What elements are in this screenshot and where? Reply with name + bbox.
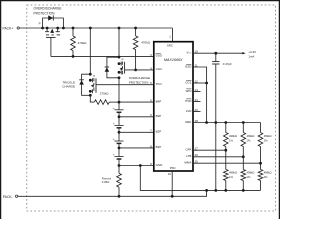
resistor pair column 1 499k/499k [225, 123, 227, 133]
svg-text:TKO: TKO [156, 82, 163, 86]
junction dots on PACK+ rail at Q1 [41, 27, 44, 30]
svg-text:10: 10 [168, 172, 172, 176]
wire tap2 to pin 8 [119, 131, 154, 133]
svg-text:OVERCHARGE: OVERCHARGE [129, 76, 150, 80]
junction dot trickle drop [89, 27, 92, 30]
svg-text:PACK-: PACK- [3, 195, 13, 199]
wire Q1 gate lead [50, 37, 52, 56]
junction dot pin 12 join [205, 82, 208, 85]
svg-text:0.47μF: 0.47μF [223, 62, 232, 66]
svg-text:OVERDISCHARGE: OVERDISCHARGE [34, 7, 62, 11]
svg-text:CG2: CG2 [156, 67, 163, 71]
wire DSG gate rail to pin 3 [51, 55, 154, 57]
svg-text:MMA: MMA [184, 161, 191, 165]
svg-text:LVD: LVD [186, 109, 192, 113]
arrowhead +3.3V output [242, 52, 245, 54]
resistor R1 470k ohm gate pullup [72, 28, 74, 36]
svg-text:499kΩ: 499kΩ [264, 171, 272, 175]
junction dot VCC cap node [214, 52, 217, 55]
svg-text:+: + [113, 137, 115, 141]
svg-text:MAX1666X: MAX1666X [164, 58, 183, 62]
svg-text:PKN: PKN [170, 166, 176, 170]
wire tap1 to pin 7 [119, 116, 154, 118]
junction dot R2 bottom at CG2 wire [134, 69, 137, 72]
svg-text:1%: 1% [247, 175, 251, 179]
junction dot overcharge drop [118, 27, 121, 30]
svg-text:1%: 1% [229, 138, 233, 142]
wire PKN pin 10 to PACK- rail [171, 171, 173, 196]
op-amp U1 MAX1666X package outline [154, 42, 193, 171]
wire rail to overcharge FET [118, 28, 120, 59]
svg-text:+3.3V: +3.3V [248, 50, 256, 54]
wire rail to trickle charge FET [89, 28, 91, 74]
wire PACK- rail [18, 190, 207, 196]
wire pin 14 stub [193, 91, 201, 93]
svg-text:P: P [122, 57, 124, 61]
svg-text:499kΩ: 499kΩ [229, 134, 237, 138]
junction dot tap column 2 [242, 155, 245, 158]
svg-text:1%: 1% [247, 138, 251, 142]
svg-text:470kΩ: 470kΩ [78, 41, 88, 45]
wire Q3 drain elbow [90, 95, 94, 102]
junction dot tap column 3 [259, 162, 262, 165]
svg-text:P: P [93, 74, 95, 78]
svg-text:LTB: LTB [186, 154, 191, 158]
transistor Q2 overcharge P-FET body [107, 57, 119, 78]
svg-text:GND: GND [156, 163, 164, 167]
wire pin 17 to tap1 [193, 149, 226, 151]
wire PACK+ rail to SRC [19, 27, 172, 29]
junction dot RSENSE bottom [118, 195, 121, 198]
svg-text:P: P [39, 21, 41, 25]
diode D3 body diode of Q3 [79, 80, 84, 84]
resistor RSENSE 0.05 ohm [118, 166, 120, 174]
svg-text:SRC: SRC [167, 43, 173, 47]
svg-text:1%: 1% [264, 175, 268, 179]
diode D1 body diode of Q1 [48, 15, 53, 20]
wire Q2 gate to pin 4 CG2 [125, 69, 154, 71]
junction dots on REF rail [205, 121, 208, 124]
wire Q3 gate to pin 5 TKO [96, 84, 154, 86]
battery cells B1-B4 [118, 102, 120, 110]
svg-text:ESD: ESD [185, 64, 192, 68]
resistor pair column 2 499k/499k [242, 123, 244, 133]
svg-text:CG1: CG1 [185, 80, 192, 84]
capacitor C1 0.47uF [215, 53, 217, 61]
wire pin 11 to bias column [193, 67, 207, 123]
junction dot battery bottom node [118, 164, 121, 167]
svg-text:1%: 1% [229, 175, 233, 179]
wire SRC pin drop [172, 28, 174, 42]
wire pin 20 stub [193, 111, 201, 113]
svg-text:CHARGE: CHARGE [62, 85, 75, 89]
svg-text:+: + [113, 106, 115, 110]
svg-text:PVD: PVD [185, 99, 192, 103]
wire pin 13 stub [193, 101, 201, 103]
junction dot battery top node [118, 101, 121, 104]
wire pin 12 join [193, 82, 207, 84]
svg-text:PROTECTION: PROTECTION [34, 11, 56, 15]
svg-text:B3P: B3P [156, 114, 162, 118]
svg-text:PROTECTION: PROTECTION [129, 81, 149, 85]
resistor R2 470k ohm gate pullup [135, 28, 137, 36]
svg-text:499kΩ: 499kΩ [264, 134, 272, 138]
figure frame border (top/left/right) [0, 0, 280, 2]
junction dot tap column 1 [224, 149, 227, 152]
svg-text:WIN: WIN [186, 89, 192, 93]
junction dot tap3 [118, 147, 121, 150]
junction dot R1 top [72, 27, 75, 30]
wire Q2 drain down to cell top [118, 78, 120, 102]
wire tap3 to pin 9 [119, 147, 154, 149]
svg-text:270kΩ: 270kΩ [100, 92, 110, 96]
junction dot Q3 source [89, 73, 92, 76]
svg-text:B1P: B1P [156, 145, 162, 149]
svg-text:470kΩ: 470kΩ [141, 40, 151, 44]
junction dot overcharge FET crossing DSG rail [118, 56, 121, 59]
junction dot Q2 drain [118, 76, 121, 79]
svg-text:1%: 1% [264, 138, 268, 142]
battery pack dashed boundary [27, 5, 276, 211]
junction dot R1 bottom [72, 55, 75, 58]
transistor Q1 overdischarge P-FET body [43, 18, 64, 28]
svg-text:B2P: B2P [156, 130, 162, 134]
junction dot tap1 [118, 115, 121, 118]
svg-text:DSG: DSG [156, 54, 163, 58]
wire pin 15 to tap3 [193, 162, 261, 164]
svg-text:+: + [113, 153, 115, 157]
svg-text:499kΩ: 499kΩ [229, 171, 237, 175]
diode D2 body diode of Q2 [105, 67, 110, 71]
junction dot Q3 drain [89, 94, 92, 97]
svg-text:0.05Ω: 0.05Ω [102, 180, 110, 184]
wire battery bottom to GND pin [119, 165, 154, 167]
svg-text:499kΩ: 499kΩ [247, 134, 255, 138]
junction dot R2 top [134, 27, 137, 30]
wire pin 16 to tap2 [193, 156, 243, 158]
svg-text:B4P: B4P [156, 99, 162, 103]
transistor Q3 trickle charge P-FET body [82, 74, 91, 95]
junction dot tap2 [118, 131, 121, 134]
svg-text:REF: REF [185, 120, 191, 124]
svg-text:1mA: 1mA [248, 54, 254, 58]
svg-text:+: + [113, 121, 115, 125]
wire REF rail pin 18 [193, 122, 261, 124]
resistor pair column 3 499k/499k [260, 123, 262, 133]
resistor R3 270k trickle resistor [94, 100, 109, 105]
svg-text:PACK+: PACK+ [3, 26, 14, 30]
wire VCC pin 19 output [193, 52, 243, 54]
svg-text:CPA: CPA [185, 148, 191, 152]
wire battery top to pin 6 [119, 101, 154, 103]
junction dots bottom rail [205, 189, 208, 192]
junction dot GND branch [139, 164, 142, 167]
svg-text:499kΩ: 499kΩ [247, 171, 255, 175]
junction dot PKN on PACK- rail [171, 195, 174, 198]
wire GND branch down and right [140, 166, 260, 191]
